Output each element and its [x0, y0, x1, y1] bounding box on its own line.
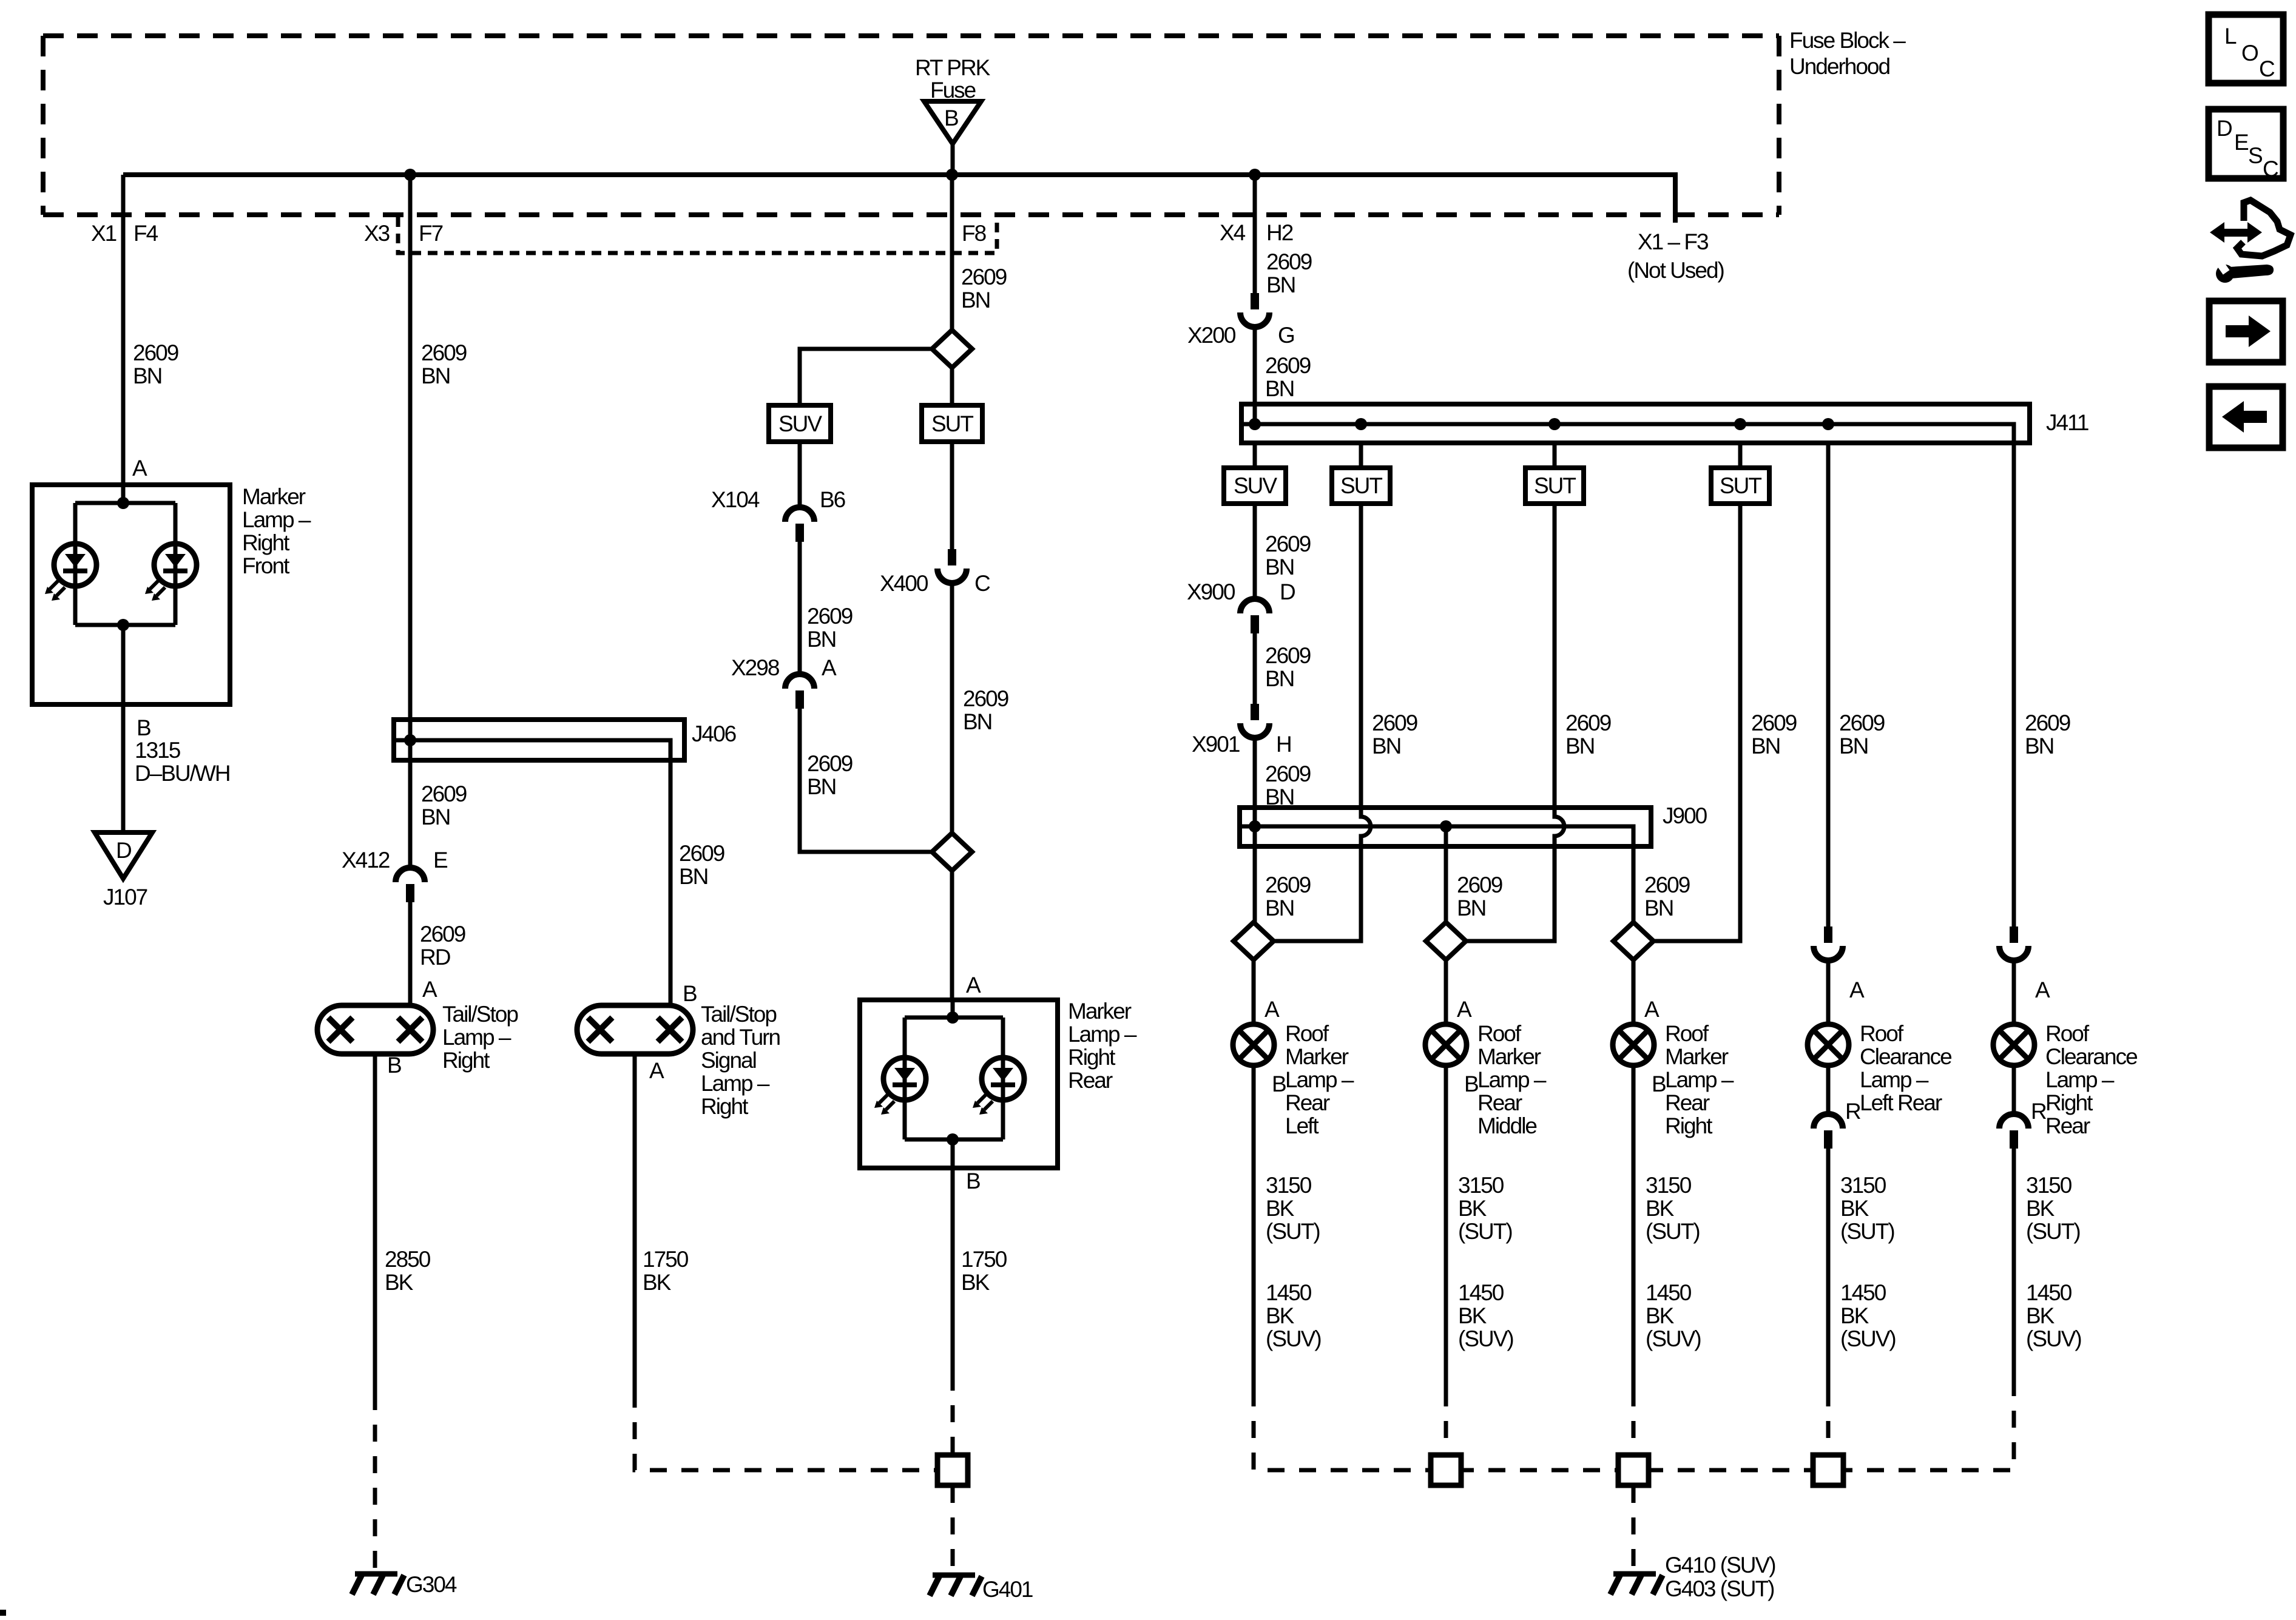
svg-text:Lamp –: Lamp – — [1665, 1067, 1734, 1092]
svg-text:(SUT): (SUT) — [2026, 1219, 2080, 1244]
option box SUT — [922, 405, 982, 442]
wire 2609 BN — [1253, 504, 1257, 599]
LED right (marker lamp right rear) — [973, 1058, 1024, 1115]
option box SUV — [769, 405, 831, 442]
svg-text:2609: 2609 — [1265, 872, 1311, 897]
svg-text:SUT: SUT — [1534, 473, 1576, 498]
svg-text:Rear: Rear — [1285, 1090, 1330, 1115]
svg-text:Underhood: Underhood — [1789, 54, 1890, 79]
svg-text:Lamp –: Lamp – — [442, 1025, 512, 1050]
svg-text:H: H — [1276, 732, 1291, 757]
svg-text:Roof: Roof — [2045, 1021, 2090, 1046]
fuse block - underhood dashed outline — [43, 36, 1779, 215]
svg-text:X1: X1 — [91, 221, 116, 246]
connector cavity R (roof clearance lamp - right rear) — [1999, 1114, 2028, 1149]
junction J411 SUT1 — [1355, 418, 1367, 430]
svg-text:BN: BN — [807, 774, 836, 799]
svg-text:2609: 2609 — [1266, 249, 1312, 274]
svg-text:J406: J406 — [692, 721, 736, 746]
wire 2609 BN — [1253, 633, 1257, 704]
wire to SUT box — [1553, 443, 1557, 468]
svg-text:Right: Right — [442, 1048, 490, 1073]
svg-text:(SUV): (SUV) — [1458, 1326, 1513, 1351]
wire to SUV box — [1253, 443, 1257, 468]
option box SUV — [1224, 468, 1286, 504]
connector X412 cavity E — [396, 868, 425, 902]
svg-text:O: O — [2241, 41, 2258, 66]
svg-text:2609: 2609 — [133, 340, 178, 365]
wire to SUT box — [1738, 443, 1743, 468]
svg-text:and Turn: and Turn — [701, 1025, 780, 1050]
wire to roof marker lamp - rear left — [1252, 960, 1256, 1024]
svg-text:(SUT): (SUT) — [1458, 1219, 1512, 1244]
svg-text:SUT: SUT — [1340, 473, 1382, 498]
svg-text:X104: X104 — [711, 487, 760, 512]
svg-text:Front: Front — [242, 553, 290, 578]
svg-text:BK: BK — [961, 1270, 990, 1295]
svg-text:X4: X4 — [1220, 220, 1246, 245]
svg-text:2609: 2609 — [679, 841, 724, 866]
junction J900 left — [1249, 820, 1261, 832]
wire 2609 BN to rear middle diamond — [1444, 826, 1448, 922]
svg-text:B: B — [1464, 1072, 1478, 1096]
svg-text:G: G — [1278, 323, 1294, 348]
svg-text:BK: BK — [1646, 1196, 1675, 1221]
junction lamp rear bottom — [947, 1133, 959, 1146]
wire 2609 BN to rear diamond — [800, 709, 932, 852]
svg-text:BN: BN — [1265, 666, 1294, 691]
svg-text:2609: 2609 — [1265, 643, 1311, 668]
svg-text:Tail/Stop: Tail/Stop — [442, 1002, 518, 1027]
svg-text:Fuse Block –: Fuse Block – — [1789, 28, 1906, 53]
connector cavity A (roof clearance lamp - right rear) — [1999, 926, 2028, 960]
svg-text:D: D — [2217, 116, 2232, 141]
wire main feed bus — [123, 175, 1675, 223]
svg-text:BN: BN — [807, 627, 836, 652]
svg-text:J900: J900 — [1663, 803, 1707, 828]
wire SUV option — [798, 442, 802, 507]
svg-text:BK: BK — [1840, 1196, 1869, 1221]
svg-text:A: A — [132, 456, 147, 481]
svg-text:Right: Right — [701, 1094, 749, 1119]
svg-text:D: D — [116, 838, 131, 863]
wire J900 internal bus — [1242, 826, 1633, 922]
wire 2609 BN from F7 — [408, 175, 413, 868]
svg-text:X298: X298 — [731, 655, 779, 680]
wire dashed clearance left ground — [1826, 1389, 1831, 1455]
marker lamp right front internal circuit — [75, 485, 175, 704]
svg-text:F4: F4 — [133, 221, 158, 246]
svg-text:Right: Right — [242, 530, 290, 555]
svg-text:(SUT): (SUT) — [1646, 1219, 1700, 1244]
wire 2609 BN to roof clearance lamp - right rear — [2012, 443, 2016, 926]
wire SUT option — [950, 442, 954, 549]
svg-text:BN: BN — [1565, 734, 1594, 758]
svg-text:A: A — [1849, 977, 1865, 1002]
svg-text:Lamp –: Lamp – — [1285, 1067, 1354, 1092]
svg-text:A: A — [966, 973, 981, 997]
svg-text:Right: Right — [1068, 1045, 1116, 1070]
marker lamp - right rear housing — [860, 1000, 1058, 1168]
svg-text:3150: 3150 — [1266, 1173, 1312, 1198]
wire dashed to ground G401 — [951, 1486, 955, 1573]
ground G410 (SUV) / G403 (SUT) — [1610, 1574, 1663, 1595]
junction at X4 drop — [1249, 169, 1261, 181]
svg-text:2609: 2609 — [1565, 710, 1611, 735]
svg-text:Tail/Stop: Tail/Stop — [701, 1002, 777, 1027]
wire to roof marker lamp - rear middle — [1444, 960, 1448, 1024]
option box SUT — [1711, 468, 1769, 504]
svg-text:F7: F7 — [419, 221, 443, 246]
svg-text:Marker: Marker — [1068, 999, 1132, 1024]
connector X104 cavity B6 — [785, 507, 814, 542]
svg-text:2609: 2609 — [421, 781, 467, 806]
splice diamond rear middle — [1426, 922, 1466, 960]
svg-text:BN: BN — [1644, 896, 1673, 920]
splice diamond rear left — [1234, 922, 1274, 960]
svg-text:BN: BN — [1266, 272, 1295, 297]
icon LOC box — [2209, 15, 2283, 83]
svg-text:R: R — [1845, 1099, 1860, 1124]
wire below roof clearance lamp - left rear — [1826, 1065, 1831, 1114]
svg-text:SUT: SUT — [1720, 473, 1761, 498]
svg-text:2609: 2609 — [807, 751, 853, 776]
svg-text:Signal: Signal — [701, 1048, 756, 1073]
svg-text:1315: 1315 — [135, 738, 181, 763]
svg-text:2609: 2609 — [421, 340, 467, 365]
svg-text:X400: X400 — [880, 571, 928, 596]
svg-text:2850: 2850 — [385, 1247, 431, 1272]
svg-text:2609: 2609 — [1265, 761, 1311, 786]
svg-text:BN: BN — [421, 805, 450, 829]
page corner mark — [0, 1610, 6, 1616]
wire dashed to ground G410/G403 — [1632, 1486, 1636, 1573]
svg-text:A: A — [422, 977, 437, 1002]
svg-text:1450: 1450 — [1458, 1280, 1504, 1305]
svg-text:Fuse: Fuse — [930, 78, 976, 103]
wire to roof clearance lamp - right rear — [2012, 960, 2016, 1024]
svg-text:A: A — [1457, 997, 1472, 1022]
wire 2609 BN to J411 — [1253, 327, 1257, 424]
junction lamp front top — [117, 497, 129, 509]
svg-text:B: B — [1272, 1072, 1286, 1096]
svg-text:Roof: Roof — [1860, 1021, 1904, 1046]
svg-text:RT PRK: RT PRK — [915, 55, 991, 80]
junction J406 — [404, 734, 416, 746]
svg-text:1750: 1750 — [961, 1247, 1007, 1272]
roof marker lamp - rear left — [1233, 1024, 1274, 1065]
svg-text:Rear: Rear — [1665, 1090, 1710, 1115]
svg-text:2609: 2609 — [1457, 872, 1502, 897]
icon arrow next page — [2209, 301, 2283, 362]
svg-text:S: S — [2248, 143, 2262, 168]
svg-text:E: E — [2234, 130, 2249, 155]
svg-text:X200: X200 — [1187, 323, 1236, 348]
svg-text:R: R — [2031, 1099, 2046, 1124]
icon DESC box — [2209, 109, 2283, 181]
wire 1750 BK dashed to G401 splice — [635, 1391, 937, 1470]
svg-text:1450: 1450 — [2026, 1280, 2072, 1305]
wire J406 bus to tail/stop and turn signal lamp — [396, 740, 670, 1005]
svg-text:Rear: Rear — [1477, 1090, 1522, 1115]
svg-text:(Not Used): (Not Used) — [1627, 258, 1724, 283]
LED right (marker lamp right front) — [145, 544, 197, 601]
svg-text:2609: 2609 — [2025, 710, 2070, 735]
svg-text:C: C — [974, 571, 990, 596]
LED left (marker lamp right rear) — [874, 1058, 926, 1115]
svg-text:3150: 3150 — [1646, 1173, 1692, 1198]
junction J900 middle — [1440, 820, 1452, 832]
wire dashed rear middle lamp ground — [1444, 1389, 1448, 1455]
svg-text:X412: X412 — [342, 848, 390, 872]
svg-text:L: L — [2224, 24, 2237, 49]
LED left (marker lamp right front) — [45, 544, 96, 601]
pass-through splice (clearance left) — [1813, 1455, 1843, 1485]
splice diamond (F8 feed) — [932, 330, 972, 368]
svg-text:Marker: Marker — [1285, 1044, 1349, 1069]
svg-text:BK: BK — [1840, 1303, 1869, 1328]
svg-text:BN: BN — [1265, 896, 1294, 920]
wire 2609 BN to rear left diamond — [1253, 826, 1257, 922]
svg-text:B: B — [1652, 1072, 1666, 1096]
junction J411 SUT2 — [1548, 418, 1561, 430]
svg-text:A: A — [822, 655, 837, 680]
wire 3150/1450 BK — [2012, 1149, 2016, 1389]
svg-text:Left: Left — [1285, 1113, 1319, 1138]
svg-text:Right: Right — [2045, 1090, 2093, 1115]
svg-text:C: C — [2263, 157, 2278, 181]
svg-text:C: C — [2259, 56, 2275, 81]
svg-text:Roof: Roof — [1477, 1021, 1522, 1046]
svg-text:BK: BK — [1646, 1303, 1675, 1328]
svg-text:Marker: Marker — [1477, 1044, 1541, 1069]
splice block J411 — [1241, 404, 2030, 443]
svg-text:A: A — [1264, 997, 1280, 1022]
svg-text:RD: RD — [420, 945, 450, 970]
roof marker lamp - rear right — [1613, 1024, 1654, 1065]
connector cavity R (roof clearance lamp - left rear) — [1814, 1114, 1843, 1149]
svg-text:A: A — [649, 1058, 664, 1083]
splice diamond rear right — [1613, 922, 1653, 960]
svg-text:Lamp –: Lamp – — [242, 507, 311, 532]
wire dashed to G401 splice — [951, 1374, 955, 1455]
wire 1750 BK — [633, 1054, 637, 1391]
icon arrow previous page — [2209, 386, 2283, 448]
svg-text:BK: BK — [1266, 1196, 1295, 1221]
ground G401 — [930, 1575, 982, 1596]
wire 2609 BN — [798, 542, 802, 674]
svg-text:D–BU/WH: D–BU/WH — [135, 761, 230, 786]
option box SUT — [1332, 468, 1390, 504]
junction at F8 drop — [946, 169, 958, 181]
junction at X3 drop — [404, 169, 416, 181]
svg-text:BN: BN — [133, 363, 161, 388]
tail/stop and turn signal lamp - right — [577, 1005, 693, 1054]
svg-text:3150: 3150 — [2026, 1173, 2072, 1198]
svg-text:J107: J107 — [103, 885, 147, 910]
connector X298 cavity A — [785, 674, 814, 709]
svg-text:X901: X901 — [1192, 732, 1240, 757]
wire 2609 BN to roof clearance lamp - left rear — [1826, 443, 1831, 926]
wire 2850 BK dashed to ground — [373, 1393, 377, 1573]
svg-text:BN: BN — [421, 363, 450, 388]
marker lamp right rear internal circuit — [905, 1000, 1003, 1168]
svg-text:(SUT): (SUT) — [1840, 1219, 1894, 1244]
wire to roof marker lamp - rear right — [1632, 960, 1636, 1024]
wire 3150/1450 BK — [1444, 1065, 1448, 1389]
svg-text:2609: 2609 — [1751, 710, 1797, 735]
junction J411 SUT3 — [1734, 418, 1746, 430]
splice block J900 — [1240, 808, 1651, 846]
svg-text:B: B — [966, 1169, 980, 1193]
wire dashed rear right lamp ground — [1632, 1389, 1636, 1455]
svg-text:Middle: Middle — [1477, 1113, 1536, 1138]
roof clearance lamp - right rear — [1993, 1024, 2034, 1065]
junction J411 clearance left — [1822, 418, 1834, 430]
connector X901 cavity H — [1240, 704, 1269, 738]
wire 2609 BN — [950, 583, 954, 833]
wire 2609 BN to marker lamp right front — [121, 175, 126, 485]
svg-text:SUV: SUV — [1234, 473, 1277, 498]
fuse RT PRK triangle B — [924, 101, 981, 144]
svg-text:SUV: SUV — [778, 411, 822, 436]
svg-text:F8: F8 — [962, 221, 986, 246]
svg-text:2609: 2609 — [807, 604, 853, 629]
svg-text:G403 (SUT): G403 (SUT) — [1665, 1576, 1774, 1601]
splice diamond (rear marker feed) — [932, 833, 972, 871]
svg-text:A: A — [2035, 977, 2050, 1002]
svg-text:SUT: SUT — [931, 411, 973, 436]
svg-text:2609: 2609 — [961, 265, 1007, 289]
junction lamp rear top — [947, 1011, 959, 1024]
svg-text:1450: 1450 — [1840, 1280, 1886, 1305]
svg-text:2609: 2609 — [420, 922, 465, 947]
svg-text:BK: BK — [643, 1270, 672, 1295]
svg-text:B: B — [387, 1053, 401, 1078]
svg-text:Lamp –: Lamp – — [1068, 1022, 1137, 1047]
svg-text:X3: X3 — [364, 221, 390, 246]
svg-text:BK: BK — [385, 1270, 414, 1295]
wire SUT2 2609 BN (hops J900) — [1466, 504, 1564, 941]
connector X400 cavity C — [937, 549, 967, 583]
ground G304 — [352, 1574, 404, 1595]
svg-text:BN: BN — [1457, 896, 1485, 920]
svg-text:2609: 2609 — [1839, 710, 1885, 735]
wire to roof clearance lamp - left rear — [1826, 960, 1831, 1024]
pass-through splice (G401) — [937, 1455, 968, 1485]
svg-text:G401: G401 — [982, 1577, 1033, 1602]
svg-text:BN: BN — [1751, 734, 1780, 758]
wire to SUT option — [950, 368, 954, 405]
svg-text:BK: BK — [1458, 1303, 1487, 1328]
junction lamp front bottom — [117, 619, 129, 631]
wire 2609 BN to J900 — [1253, 738, 1257, 826]
wire 2850 BK — [373, 1054, 377, 1393]
pass-through splice (rear middle) — [1431, 1455, 1461, 1485]
svg-text:(SUT): (SUT) — [1266, 1219, 1320, 1244]
svg-text:Lamp –: Lamp – — [701, 1071, 770, 1096]
svg-text:BN: BN — [2025, 734, 2053, 758]
wire 2609 BN from F8 — [950, 175, 954, 330]
svg-text:Roof: Roof — [1285, 1021, 1329, 1046]
svg-text:Marker: Marker — [1665, 1044, 1729, 1069]
svg-text:Right: Right — [1665, 1113, 1713, 1138]
svg-text:2609: 2609 — [1372, 710, 1417, 735]
svg-text:(SUV): (SUV) — [2026, 1326, 2081, 1351]
wire below roof clearance lamp - right rear — [2012, 1065, 2016, 1114]
option box SUT — [1525, 468, 1584, 504]
svg-text:X1 – F3: X1 – F3 — [1638, 229, 1708, 254]
marker lamp - right front housing — [32, 485, 230, 704]
wire 3150/1450 BK — [1252, 1065, 1256, 1389]
wire to marker lamp right rear — [950, 871, 954, 1000]
wire 3150/1450 BK — [1632, 1065, 1636, 1389]
svg-text:G304: G304 — [406, 1572, 457, 1597]
svg-text:BN: BN — [1265, 555, 1294, 579]
svg-text:Lamp –: Lamp – — [2045, 1067, 2115, 1092]
svg-text:2609: 2609 — [963, 686, 1008, 711]
svg-text:3150: 3150 — [1840, 1173, 1886, 1198]
svg-text:Lamp –: Lamp – — [1477, 1067, 1547, 1092]
svg-text:BK: BK — [2026, 1303, 2055, 1328]
svg-text:B: B — [137, 715, 150, 740]
wire to SUV option — [800, 349, 932, 405]
svg-text:Marker: Marker — [242, 484, 306, 509]
wire SUT3 2609 BN — [1653, 504, 1740, 941]
svg-text:BK: BK — [1266, 1303, 1295, 1328]
svg-text:1450: 1450 — [1266, 1280, 1312, 1305]
roof clearance lamp - left rear — [1808, 1024, 1849, 1065]
tail/stop lamp - right — [317, 1005, 433, 1054]
svg-text:(SUV): (SUV) — [1266, 1326, 1321, 1351]
svg-text:1450: 1450 — [1646, 1280, 1692, 1305]
wire 1750 BK — [951, 1168, 955, 1374]
svg-text:G410 (SUV): G410 (SUV) — [1665, 1553, 1775, 1578]
svg-text:Roof: Roof — [1665, 1021, 1709, 1046]
svg-text:BN: BN — [679, 864, 707, 889]
icon schematic reference (arrow, outline, wrench) — [2210, 200, 2291, 283]
svg-text:1750: 1750 — [643, 1247, 689, 1272]
svg-text:Rear: Rear — [2045, 1113, 2090, 1138]
svg-text:2609: 2609 — [1644, 872, 1690, 897]
wire 2609 RD — [408, 902, 413, 1005]
svg-text:BK: BK — [1458, 1196, 1487, 1221]
wire fuse output — [951, 144, 955, 175]
wire 2609 BN from H2 — [1253, 175, 1257, 293]
connector X200 cavity G — [1240, 293, 1269, 327]
wire 1315 D-BU/WH — [121, 704, 126, 832]
svg-text:BN: BN — [961, 288, 990, 312]
svg-text:E: E — [433, 848, 448, 872]
svg-text:(SUV): (SUV) — [1840, 1326, 1896, 1351]
svg-text:A: A — [1644, 997, 1660, 1022]
wire to SUT box — [1359, 443, 1363, 468]
svg-text:2609: 2609 — [1265, 353, 1311, 378]
svg-text:B: B — [683, 981, 697, 1006]
svg-text:Clearance: Clearance — [2045, 1044, 2137, 1069]
svg-text:J411: J411 — [2046, 410, 2088, 435]
svg-text:Rear: Rear — [1068, 1068, 1113, 1093]
svg-text:BK: BK — [2026, 1196, 2055, 1221]
svg-text:Clearance: Clearance — [1860, 1044, 1951, 1069]
roof marker lamp - rear middle — [1425, 1024, 1467, 1065]
svg-text:Lamp –: Lamp – — [1860, 1067, 1929, 1092]
svg-text:BN: BN — [1839, 734, 1868, 758]
splice pack J107 triangle D — [95, 832, 152, 879]
svg-text:Left Rear: Left Rear — [1860, 1090, 1942, 1115]
svg-text:BN: BN — [1372, 734, 1400, 758]
svg-text:3150: 3150 — [1458, 1173, 1504, 1198]
